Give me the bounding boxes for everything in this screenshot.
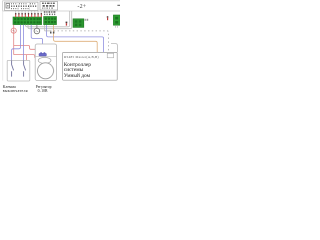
left frame edge	[2, 11, 4, 81]
strip X2 screws	[45, 18, 56, 24]
svg-text:-2+: -2+	[77, 4, 86, 10]
strip X1 screws row 2	[14, 21, 41, 23]
red branch to regulator	[14, 55, 35, 58]
block X5 screws	[115, 17, 118, 24]
label - at right edge	[117, 5, 120, 6]
lamp symbol HL1	[11, 28, 16, 33]
svg-text:выключателя: выключателя	[3, 89, 28, 93]
regulator body	[35, 44, 56, 81]
ballast section dividers	[17, 2, 19, 10]
red dot node	[66, 22, 68, 24]
red pin near X5	[107, 16, 109, 18]
block X5 lower stubs	[114, 25, 116, 28]
red wire L main	[13, 25, 15, 55]
regulator face ellipse	[38, 57, 51, 63]
strip X1 screws row 1	[14, 18, 41, 20]
gray wire top right	[111, 44, 117, 53]
blue wire B3 to regulator	[31, 25, 42, 54]
switch contact 2	[24, 60, 26, 76]
device box B	[40, 2, 58, 10]
switch box SA1	[7, 60, 30, 81]
terminal strip X1	[13, 17, 42, 25]
svg-text:0..10В: 0..10В	[38, 89, 48, 93]
lamp plug block X3	[73, 19, 84, 28]
terminal strip X2	[44, 17, 57, 25]
switch contact 1	[12, 60, 14, 76]
strip X2 label row 2	[44, 14, 55, 16]
regulator terminal block	[40, 52, 42, 53]
gray wire G2 to lamp dim plus	[28, 11, 72, 29]
luminaire top panel	[3, 1, 121, 11]
controller box	[63, 52, 118, 80]
device B label row 2	[43, 5, 55, 7]
ballast marking row 3	[11, 8, 29, 9]
cable tick marks	[50, 32, 52, 34]
ballast marking row 2	[11, 5, 36, 7]
blue wire B4 to controller	[47, 25, 104, 52]
gray stub from X2	[44, 25, 46, 31]
blue wire B1 to switch 1	[12, 25, 21, 61]
gray wire G1 to lamp dim minus	[26, 11, 70, 27]
block X3 screws	[75, 20, 81, 26]
ballast marking row 1	[11, 3, 35, 4]
blue wire B2 to switch 2	[23, 25, 25, 61]
AC source symbol	[36, 25, 38, 29]
RS485 connector	[107, 53, 113, 58]
ballast device box A	[5, 2, 38, 10]
regulator divider	[35, 56, 56, 58]
ballast logo square	[6, 4, 10, 8]
red drop to switch box	[10, 55, 27, 77]
device B label row 3	[42, 8, 53, 9]
strip X2 label row 1	[44, 11, 56, 12]
red branch upper	[14, 46, 36, 50]
svg-text:Умный дом: Умный дом	[64, 72, 91, 79]
strip X1 wire pins	[15, 12, 42, 18]
dashed RS485 cable	[45, 30, 50, 32]
block X3 tiny label	[85, 19, 89, 21]
knob inner arc	[51, 65, 54, 77]
device B label row 1	[42, 3, 55, 4]
mains plug block X5	[113, 15, 120, 25]
orange wire to controller	[54, 25, 98, 52]
regulator knob	[38, 63, 54, 79]
